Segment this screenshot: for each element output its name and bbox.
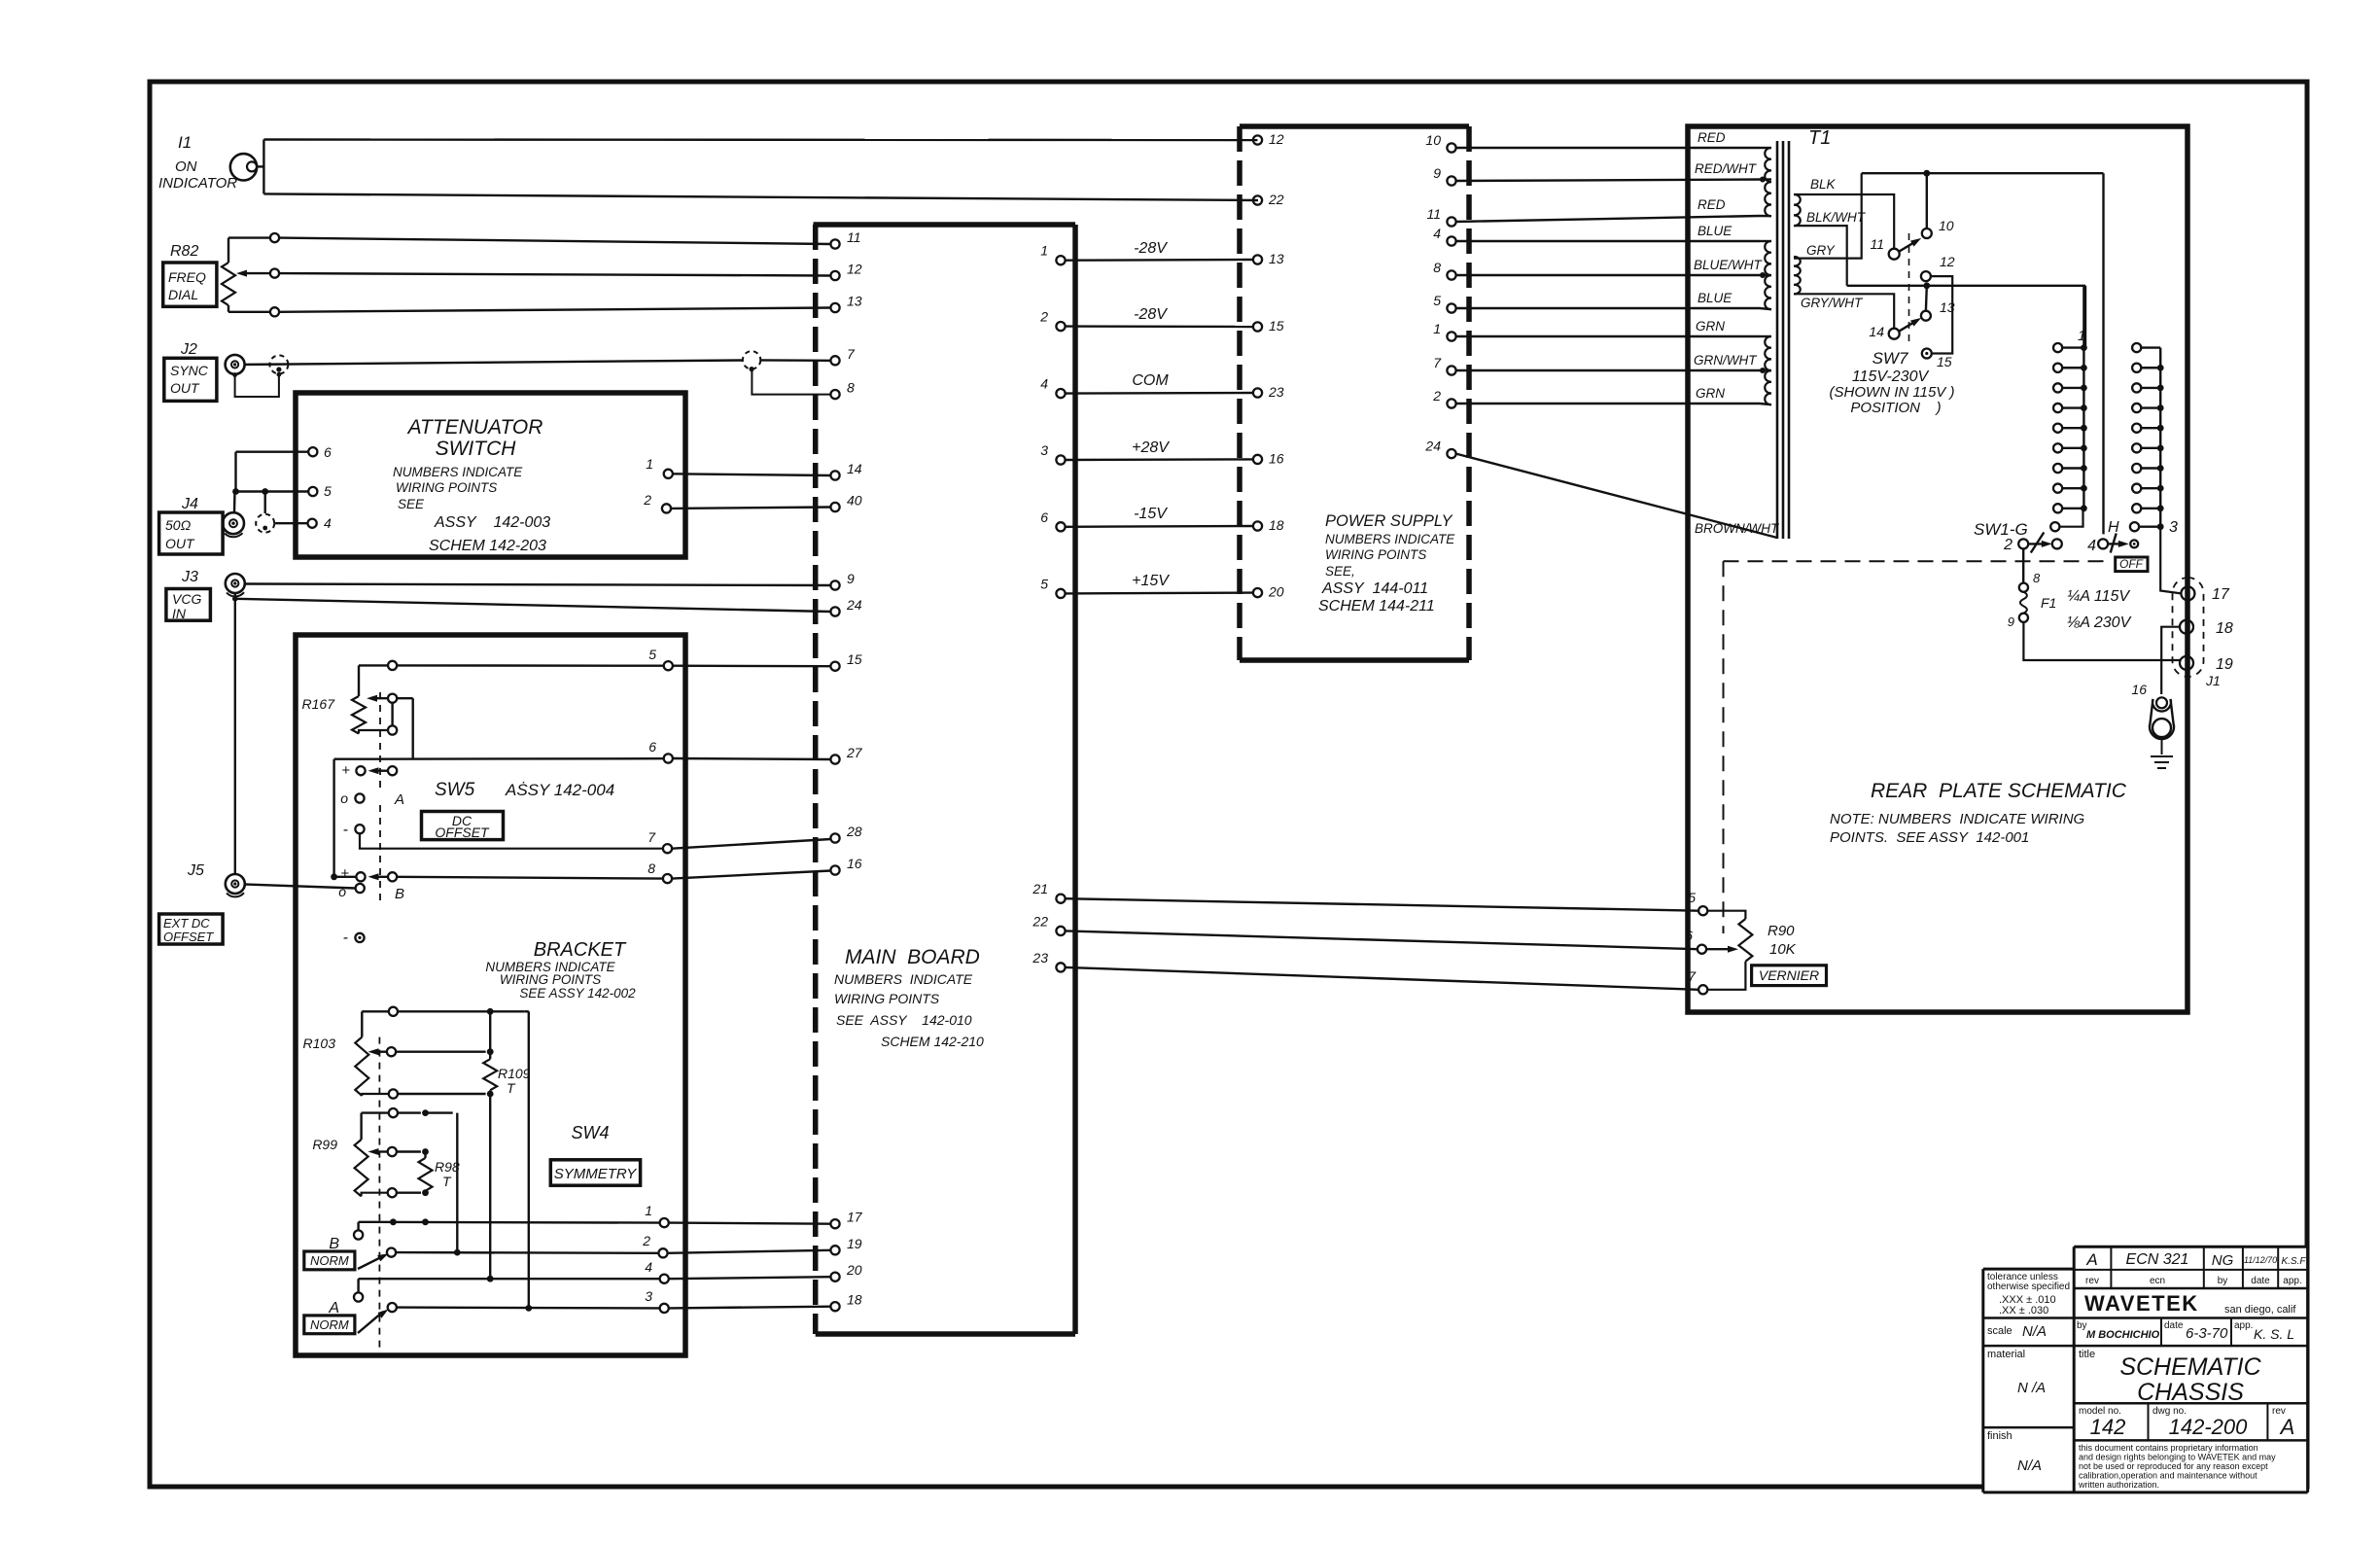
svg-text:otherwise specified: otherwise specified bbox=[1987, 1282, 2070, 1292]
svg-text:R103: R103 bbox=[303, 1036, 336, 1051]
svg-text:T: T bbox=[442, 1174, 452, 1189]
svg-text:2: 2 bbox=[1039, 309, 1048, 325]
svg-text:8: 8 bbox=[647, 860, 655, 876]
svg-text:T: T bbox=[507, 1080, 516, 1096]
svg-text:1: 1 bbox=[2078, 328, 2085, 344]
svg-text:+15V: +15V bbox=[1132, 573, 1170, 589]
svg-text:23: 23 bbox=[1268, 384, 1284, 400]
svg-text:13: 13 bbox=[1269, 251, 1284, 266]
svg-text:K. S. L: K. S. L bbox=[2254, 1326, 2294, 1342]
svg-text:A: A bbox=[2085, 1250, 2097, 1269]
svg-text:MAIN BOARD: MAIN BOARD bbox=[845, 946, 980, 968]
svg-text:SEE,: SEE, bbox=[1325, 564, 1355, 579]
svg-text:SWITCH: SWITCH bbox=[436, 438, 517, 460]
svg-text:WIRING POINTS: WIRING POINTS bbox=[500, 972, 601, 987]
svg-text:22: 22 bbox=[1032, 913, 1048, 929]
svg-text:R82: R82 bbox=[170, 243, 198, 260]
svg-text:13: 13 bbox=[847, 294, 862, 309]
svg-text:ATTENUATOR: ATTENUATOR bbox=[406, 416, 543, 439]
svg-text:5: 5 bbox=[1688, 890, 1696, 905]
svg-text:NUMBERS INDICATE: NUMBERS INDICATE bbox=[1325, 532, 1455, 546]
svg-text:10: 10 bbox=[1939, 218, 1954, 233]
svg-text:OFF: OFF bbox=[2119, 557, 2144, 571]
svg-text:BLUE: BLUE bbox=[1697, 224, 1732, 238]
svg-text:NORM: NORM bbox=[310, 1253, 349, 1268]
svg-text:18: 18 bbox=[2216, 620, 2233, 637]
svg-text:4: 4 bbox=[1433, 226, 1441, 241]
svg-text:material: material bbox=[1987, 1349, 2025, 1360]
svg-text:142-200: 142-200 bbox=[2169, 1415, 2249, 1439]
svg-text:GRY: GRY bbox=[1806, 243, 1836, 258]
svg-text:12: 12 bbox=[1269, 131, 1284, 147]
svg-text:16: 16 bbox=[2131, 682, 2147, 697]
svg-text:SW4: SW4 bbox=[571, 1123, 609, 1142]
svg-text:10K: 10K bbox=[1769, 941, 1797, 958]
svg-text:6: 6 bbox=[1685, 928, 1693, 943]
svg-text:WIRING POINTS: WIRING POINTS bbox=[1325, 547, 1426, 562]
svg-text:11: 11 bbox=[847, 229, 861, 245]
svg-text:24: 24 bbox=[846, 597, 862, 613]
svg-text:J3: J3 bbox=[181, 569, 198, 585]
svg-text:22: 22 bbox=[1268, 192, 1284, 207]
svg-text:.XX ± .030: .XX ± .030 bbox=[1999, 1305, 2048, 1317]
svg-text:POINTS. SEE ASSY 142-001: POINTS. SEE ASSY 142-001 bbox=[1830, 829, 2029, 846]
svg-text:A: A bbox=[394, 791, 404, 808]
svg-text:12: 12 bbox=[847, 262, 862, 277]
svg-text:4: 4 bbox=[645, 1259, 652, 1275]
svg-text:¼A 115V: ¼A 115V bbox=[2067, 588, 2130, 605]
svg-text:written authorization.: written authorization. bbox=[2078, 1480, 2159, 1490]
svg-text:7: 7 bbox=[1688, 968, 1697, 984]
svg-text:VCG: VCG bbox=[172, 591, 201, 607]
svg-text:app.: app. bbox=[2234, 1320, 2253, 1331]
svg-text:16: 16 bbox=[847, 856, 862, 871]
svg-text:SCHEM 142-210: SCHEM 142-210 bbox=[881, 1034, 984, 1049]
svg-text:N /A: N /A bbox=[2017, 1380, 2046, 1396]
svg-text:11: 11 bbox=[1870, 236, 1884, 252]
svg-text:VERNIER: VERNIER bbox=[1759, 967, 1819, 983]
svg-text:RED/WHT: RED/WHT bbox=[1695, 161, 1758, 176]
svg-text:DIAL: DIAL bbox=[168, 287, 198, 302]
svg-text:2: 2 bbox=[642, 1233, 650, 1248]
svg-text:WIRING POINTS: WIRING POINTS bbox=[834, 991, 940, 1006]
svg-text:NUMBERS INDICATE: NUMBERS INDICATE bbox=[393, 465, 523, 479]
svg-text:20: 20 bbox=[846, 1262, 862, 1278]
svg-text:50Ω: 50Ω bbox=[165, 517, 192, 533]
svg-text:11: 11 bbox=[1426, 206, 1441, 222]
svg-text:6: 6 bbox=[324, 444, 332, 460]
svg-text:OFFSET: OFFSET bbox=[163, 930, 214, 944]
svg-text:9: 9 bbox=[847, 571, 855, 586]
svg-text:COM: COM bbox=[1132, 372, 1169, 389]
svg-text:9: 9 bbox=[1433, 165, 1441, 181]
svg-text:finish: finish bbox=[1987, 1430, 2012, 1442]
svg-text:SEE ASSY 142-002: SEE ASSY 142-002 bbox=[519, 986, 636, 1001]
svg-text:5: 5 bbox=[648, 647, 656, 662]
svg-text:19: 19 bbox=[847, 1236, 862, 1251]
svg-text:27: 27 bbox=[846, 745, 863, 760]
svg-text:BLK/WHT: BLK/WHT bbox=[1806, 210, 1867, 225]
svg-text:A: A bbox=[2279, 1415, 2295, 1439]
svg-text:OFFSET: OFFSET bbox=[435, 825, 490, 840]
svg-text:this document contains proprie: this document contains proprietary infor… bbox=[2079, 1443, 2258, 1453]
svg-text:WIRING POINTS: WIRING POINTS bbox=[396, 480, 497, 495]
svg-text:N/A: N/A bbox=[2017, 1457, 2042, 1474]
svg-text:EXT DC: EXT DC bbox=[163, 916, 210, 931]
svg-text:BLK: BLK bbox=[1810, 177, 1837, 192]
svg-text:RED: RED bbox=[1697, 197, 1726, 212]
svg-text:SW1-G: SW1-G bbox=[1974, 520, 2028, 539]
svg-text:1: 1 bbox=[646, 456, 653, 472]
svg-text:date: date bbox=[2251, 1276, 2270, 1286]
svg-text:OUT: OUT bbox=[170, 380, 200, 396]
svg-text:BLUE: BLUE bbox=[1697, 291, 1732, 305]
svg-text:NG: NG bbox=[2212, 1252, 2234, 1269]
svg-text:rev: rev bbox=[2085, 1276, 2099, 1286]
svg-text:6: 6 bbox=[648, 739, 656, 755]
svg-text:SEE ASSY 142-010: SEE ASSY 142-010 bbox=[836, 1012, 972, 1028]
svg-text:1: 1 bbox=[645, 1203, 652, 1218]
svg-text:7: 7 bbox=[847, 346, 856, 362]
svg-text:-15V: -15V bbox=[1134, 506, 1168, 522]
svg-text:K.S.F: K.S.F bbox=[2281, 1256, 2306, 1267]
svg-text:17: 17 bbox=[2212, 586, 2230, 603]
svg-text:SYMMETRY: SYMMETRY bbox=[554, 1166, 637, 1182]
svg-text:AṠSY 142-004: AṠSY 142-004 bbox=[505, 781, 614, 799]
svg-text:BRACKET: BRACKET bbox=[534, 939, 627, 961]
svg-text:N/A: N/A bbox=[2022, 1323, 2047, 1340]
svg-text:40: 40 bbox=[847, 493, 862, 509]
svg-text:1: 1 bbox=[1433, 321, 1441, 336]
svg-text:SCHEM 144-211: SCHEM 144-211 bbox=[1318, 598, 1435, 614]
svg-text:-: - bbox=[343, 930, 348, 946]
svg-text:ECN 321: ECN 321 bbox=[2126, 1251, 2189, 1268]
svg-text:12: 12 bbox=[1940, 254, 1955, 269]
svg-text:R99: R99 bbox=[312, 1137, 337, 1152]
svg-text:R167: R167 bbox=[302, 696, 336, 712]
svg-text:B: B bbox=[395, 886, 404, 902]
svg-text:11/12/70: 11/12/70 bbox=[2244, 1255, 2277, 1265]
svg-text:SCHEMATIC: SCHEMATIC bbox=[2119, 1353, 2261, 1381]
svg-text:15: 15 bbox=[1937, 354, 1952, 369]
svg-text:4: 4 bbox=[324, 515, 332, 531]
svg-text:o: o bbox=[340, 790, 348, 806]
svg-text:3: 3 bbox=[1040, 442, 1048, 458]
svg-text:18: 18 bbox=[1269, 517, 1284, 533]
svg-text:18: 18 bbox=[847, 1292, 862, 1308]
svg-text:6: 6 bbox=[1040, 509, 1048, 525]
svg-text:5: 5 bbox=[1433, 293, 1441, 308]
svg-text:I1: I1 bbox=[178, 133, 192, 152]
svg-text:9: 9 bbox=[2008, 614, 2014, 629]
svg-text:SW7: SW7 bbox=[1872, 349, 1908, 368]
svg-text:21: 21 bbox=[1032, 881, 1048, 896]
svg-text:and design rights belonging to: and design rights belonging to WAVETEK a… bbox=[2079, 1453, 2276, 1462]
svg-text:SCHEM 142-203: SCHEM 142-203 bbox=[429, 538, 546, 554]
svg-text:ecn: ecn bbox=[2150, 1276, 2165, 1286]
svg-text:POWER SUPPLY: POWER SUPPLY bbox=[1325, 512, 1453, 530]
svg-text:CHASSIS: CHASSIS bbox=[2137, 1379, 2244, 1406]
svg-text:5: 5 bbox=[324, 483, 332, 499]
svg-text:8: 8 bbox=[2033, 571, 2041, 585]
svg-text:-28V: -28V bbox=[1134, 306, 1168, 323]
svg-text:28: 28 bbox=[846, 824, 862, 839]
svg-text:16: 16 bbox=[1269, 450, 1284, 466]
svg-text:+28V: +28V bbox=[1132, 439, 1170, 456]
svg-text:19: 19 bbox=[2216, 656, 2233, 673]
svg-text:8: 8 bbox=[1433, 260, 1441, 275]
svg-text:R90: R90 bbox=[1767, 923, 1795, 939]
svg-text:2: 2 bbox=[1432, 388, 1441, 404]
svg-text:ASSY 144-011: ASSY 144-011 bbox=[1321, 580, 1428, 597]
svg-text:san diego, calif: san diego, calif bbox=[2224, 1304, 2296, 1316]
svg-text:J2: J2 bbox=[180, 341, 197, 358]
svg-text:3: 3 bbox=[2169, 519, 2178, 536]
svg-text:15: 15 bbox=[847, 651, 862, 667]
svg-text:NUMBERS INDICATE: NUMBERS INDICATE bbox=[834, 971, 973, 987]
svg-text:WAVETEK: WAVETEK bbox=[2084, 1291, 2199, 1316]
svg-text:20: 20 bbox=[1268, 584, 1284, 600]
svg-text:M BOCHICHIO: M BOCHICHIO bbox=[2086, 1329, 2160, 1341]
svg-text:SEE: SEE bbox=[398, 497, 425, 511]
svg-text:8: 8 bbox=[847, 380, 855, 396]
svg-text:6-3-70: 6-3-70 bbox=[2186, 1325, 2228, 1342]
svg-text:POSITION ): POSITION ) bbox=[1850, 400, 1941, 416]
svg-text:SYNC: SYNC bbox=[170, 363, 209, 378]
svg-text:FREQ: FREQ bbox=[168, 269, 206, 285]
svg-text:H: H bbox=[2108, 519, 2119, 536]
svg-text:RED: RED bbox=[1697, 130, 1726, 145]
svg-text:REAR PLATE SCHEMATIC: REAR PLATE SCHEMATIC bbox=[1871, 780, 2127, 802]
svg-text:⅛A 230V: ⅛A 230V bbox=[2067, 614, 2132, 631]
svg-text:INDICATOR: INDICATOR bbox=[158, 175, 237, 192]
svg-text:J1: J1 bbox=[2205, 673, 2221, 688]
svg-text:5: 5 bbox=[1040, 576, 1048, 591]
svg-text:ON: ON bbox=[175, 158, 197, 175]
svg-text:BLUE/WHT: BLUE/WHT bbox=[1694, 258, 1764, 272]
svg-text:-28V: -28V bbox=[1134, 240, 1168, 257]
svg-text:17: 17 bbox=[847, 1210, 863, 1225]
svg-text:ASSY 142-003: ASSY 142-003 bbox=[434, 514, 550, 531]
svg-text:not be used or reproduced for: not be used or reproduced for any reason… bbox=[2079, 1461, 2268, 1471]
svg-text:3: 3 bbox=[645, 1288, 652, 1304]
svg-text:4: 4 bbox=[2087, 538, 2096, 554]
svg-text:GRN/WHT: GRN/WHT bbox=[1694, 353, 1758, 368]
svg-text:GRN: GRN bbox=[1696, 386, 1725, 401]
svg-text:title: title bbox=[2079, 1349, 2095, 1360]
svg-text:7: 7 bbox=[1433, 355, 1442, 370]
svg-text:BROWN/WHT: BROWN/WHT bbox=[1695, 521, 1780, 536]
svg-text:F1: F1 bbox=[2041, 595, 2056, 611]
svg-text:14: 14 bbox=[847, 461, 862, 476]
svg-text:SW5: SW5 bbox=[435, 780, 475, 800]
svg-text:J4: J4 bbox=[181, 496, 198, 512]
svg-text:23: 23 bbox=[1032, 950, 1048, 966]
svg-text:R98: R98 bbox=[435, 1159, 460, 1175]
svg-text:NORM: NORM bbox=[310, 1317, 349, 1332]
svg-text:-: - bbox=[343, 822, 348, 838]
svg-text:GRY/WHT: GRY/WHT bbox=[1801, 296, 1864, 310]
svg-text:NOTE: NUMBERS INDICATE WIRING: NOTE: NUMBERS INDICATE WIRING bbox=[1830, 811, 2085, 827]
svg-text:by: by bbox=[2077, 1320, 2087, 1331]
svg-text:date: date bbox=[2164, 1320, 2184, 1331]
svg-text:7: 7 bbox=[647, 829, 656, 845]
svg-text:+: + bbox=[341, 762, 350, 779]
svg-text:+: + bbox=[340, 865, 349, 882]
svg-text:R109: R109 bbox=[498, 1066, 531, 1081]
svg-text:2: 2 bbox=[2003, 537, 2012, 553]
svg-text:15: 15 bbox=[1269, 318, 1284, 334]
svg-text:T1: T1 bbox=[1808, 127, 1831, 149]
svg-text:app.: app. bbox=[2283, 1276, 2301, 1286]
svg-text:(SHOWN IN 115V ): (SHOWN IN 115V ) bbox=[1830, 384, 1955, 401]
svg-text:1: 1 bbox=[1040, 243, 1048, 259]
svg-text:115V-230V: 115V-230V bbox=[1852, 369, 1930, 385]
svg-text:IN: IN bbox=[172, 606, 187, 621]
svg-text:by: by bbox=[2218, 1276, 2228, 1286]
svg-text:GRN: GRN bbox=[1696, 319, 1725, 334]
svg-text:J5: J5 bbox=[187, 862, 204, 879]
svg-text:o: o bbox=[338, 884, 346, 899]
svg-text:142: 142 bbox=[2090, 1415, 2126, 1439]
svg-text:10: 10 bbox=[1425, 132, 1441, 148]
svg-text:14: 14 bbox=[1869, 324, 1884, 339]
svg-text:24: 24 bbox=[1424, 439, 1441, 454]
svg-text:OUT: OUT bbox=[165, 536, 195, 551]
svg-text:2: 2 bbox=[643, 492, 651, 508]
svg-text:13: 13 bbox=[1940, 299, 1955, 315]
svg-text:4: 4 bbox=[1040, 376, 1048, 392]
svg-text:calibration,operation and main: calibration,operation and maintenance wi… bbox=[2079, 1471, 2257, 1481]
svg-text:scale: scale bbox=[1987, 1325, 2012, 1337]
